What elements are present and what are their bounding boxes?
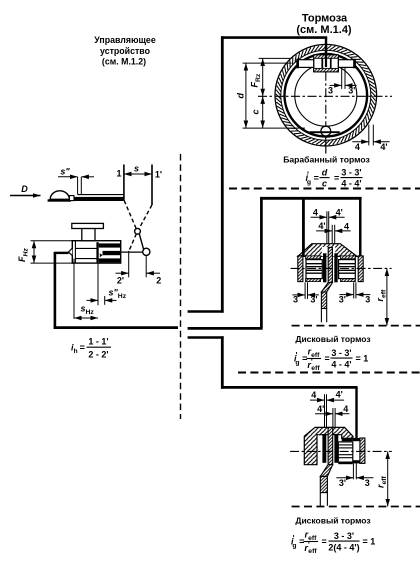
brake shoes circle [285, 54, 368, 137]
dimension F_Hz [17, 241, 34, 263]
svg-text:(см. М.1.2): (см. М.1.2) [102, 57, 146, 67]
s_Hz reference lines [74, 259, 105, 319]
pipe horizontal [221, 386, 358, 389]
left piston [306, 260, 322, 279]
vertical centre line [325, 72, 327, 154]
node 1 reference line [123, 165, 125, 201]
horizontal centre line [258, 95, 392, 97]
shoe inner circle [295, 64, 357, 126]
svg-text:(см. М.1.4): (см. М.1.4) [296, 24, 352, 36]
svg-text:3 - 3': 3 - 3' [341, 167, 361, 177]
dimension r_eff [375, 268, 388, 325]
frame top pipe [260, 197, 362, 200]
svg-text:3: 3 [365, 478, 370, 488]
pedal lever linkage (crossed) [124, 201, 152, 251]
svg-text:c: c [322, 178, 327, 188]
dimension d [236, 63, 246, 128]
svg-text:1: 1 [116, 169, 121, 179]
pedal [48, 191, 74, 202]
svg-text:4 - 4': 4 - 4' [341, 178, 361, 188]
svg-text:=: = [322, 537, 327, 547]
svg-text:3: 3 [293, 294, 298, 304]
boundary dashes top [229, 188, 420, 190]
pipe drop into wheel cylinder [325, 38, 327, 56]
svg-text:1': 1' [155, 170, 162, 180]
brake disc (upper strip) [328, 247, 332, 282]
svg-text:1 - 1': 1 - 1' [88, 337, 108, 347]
feed pipe to right cylinder [359, 198, 361, 256]
svg-text:4': 4' [336, 207, 343, 217]
extension lines left of drum [243, 58, 305, 128]
axle dashed line [292, 506, 420, 508]
wheel cylinder right push rod [338, 59, 356, 69]
left brake pad [322, 434, 326, 463]
svg-text:3 - 3': 3 - 3' [331, 348, 351, 358]
formula disc brake 1 [294, 347, 368, 372]
svg-text:Дисковый тормоз: Дисковый тормоз [295, 334, 370, 344]
svg-text:Дисковый тормоз: Дисковый тормоз [295, 516, 370, 526]
dimension s''_Hz [87, 288, 127, 301]
svg-text:3': 3' [339, 478, 346, 488]
force arrow D [10, 184, 41, 196]
centre line disc brake 1 [291, 267, 392, 269]
master cylinder U1 body [68, 241, 120, 263]
dimension r_eff [376, 451, 389, 506]
piston [338, 442, 353, 462]
left cylinder housing [298, 256, 321, 282]
pipe drop to caliper [355, 387, 357, 438]
push rod [121, 251, 143, 253]
dimension s (pedal travel) [124, 164, 152, 175]
dimension 3'/3 right pair [339, 282, 371, 304]
wheel cylinder left push rod [296, 59, 313, 69]
dimension c [251, 96, 263, 128]
disc jog [321, 283, 332, 293]
drum outer circle [275, 44, 377, 146]
svg-text:=: = [325, 354, 330, 364]
supply stub to drum brake [188, 310, 224, 313]
separator dashed line [180, 154, 182, 419]
node 1' reference line [151, 165, 153, 206]
svg-text:4': 4' [317, 404, 324, 414]
svg-text:4: 4 [343, 404, 348, 414]
trunk pipe vertical (left of drum) [221, 36, 224, 312]
svg-text:3': 3' [339, 294, 346, 304]
centre line disc brake 2 [290, 450, 392, 452]
dimension 3/3' left pair [292, 282, 319, 304]
extension line bottom [31, 262, 76, 264]
svg-text:s": s" [60, 167, 70, 177]
svg-text:4: 4 [355, 142, 360, 152]
supply stub to disc brake 2 [188, 336, 224, 339]
svg-text:d: d [236, 93, 246, 99]
dimension 2' / 2 [116, 251, 162, 286]
dimension 4 / 4' (anchor) [352, 125, 389, 152]
cylinder end cap [353, 438, 365, 463]
boundary dashes middle [238, 372, 420, 374]
svg-text:3': 3' [310, 294, 317, 304]
reservoir [72, 223, 104, 240]
caliper bridge [298, 244, 357, 257]
svg-text:устройство: устройство [100, 46, 151, 56]
piston of master cylinder [96, 242, 120, 262]
dimension s_Hz [74, 304, 98, 319]
pivot node 2 (pushrod joint) [143, 248, 150, 255]
svg-text:4: 4 [313, 207, 318, 217]
hydraulic line to separator [54, 326, 178, 329]
dimension F_Rz [250, 58, 263, 96]
right piston [339, 260, 356, 279]
supply pipe down [54, 252, 57, 329]
right cylinder housing [340, 256, 363, 282]
caliper fist and bridge [304, 427, 353, 464]
svg-text:s: s [134, 164, 139, 174]
formula disc brake 2 [291, 530, 375, 555]
svg-text:3: 3 [365, 294, 370, 304]
extension line top [31, 240, 73, 242]
feed pipe to left cylinder [302, 198, 305, 256]
caption brakes [296, 13, 352, 37]
svg-text:Тормоза: Тормоза [302, 13, 348, 25]
svg-text:4: 4 [311, 390, 316, 400]
left brake pad [323, 253, 326, 282]
feed pipe overdraw left [302, 198, 305, 256]
wheel cylinder [314, 43, 339, 72]
svg-text:3: 3 [328, 85, 333, 95]
svg-text:4': 4' [336, 390, 343, 400]
svg-text:D: D [21, 184, 28, 194]
disc jog [320, 465, 332, 477]
svg-text:2(4 - 4'): 2(4 - 4') [328, 542, 359, 552]
svg-text:4': 4' [380, 142, 387, 152]
axle dashed line [292, 325, 420, 327]
drum rim hatched ring [276, 45, 376, 145]
dimension 4'/4 lower [315, 404, 349, 428]
formula drum brake [306, 167, 363, 188]
svg-text:= 1: = 1 [356, 354, 369, 364]
svg-text:2': 2' [117, 276, 124, 286]
outlet elbow [54, 252, 69, 254]
brake disc (upper strip) [328, 427, 333, 465]
svg-text:Управляющее: Управляющее [94, 35, 156, 45]
caption control device [94, 35, 156, 67]
svg-text:3': 3' [348, 85, 355, 95]
right brake pad [334, 253, 337, 282]
disc lower strip [321, 292, 326, 322]
pipe vertical from junction [221, 336, 224, 388]
formula i_h [71, 337, 111, 360]
right brake pad [334, 434, 338, 463]
svg-text:c: c [251, 109, 261, 114]
svg-text:4: 4 [344, 221, 349, 231]
pipe top horizontal [221, 36, 327, 39]
svg-text:2 - 2': 2 - 2' [88, 350, 108, 360]
svg-text:3 - 3': 3 - 3' [334, 531, 354, 541]
dimension s'' (pedal free play) [58, 167, 94, 195]
dimension 4/4' upper [310, 390, 344, 428]
dimension 4'/4 lower [316, 221, 351, 247]
dimension 4/4' upper [311, 207, 345, 247]
svg-text:Барабанный тормоз: Барабанный тормоз [283, 155, 370, 165]
cylinder housing bands [338, 438, 353, 464]
pedal rod / lever arm [74, 195, 124, 201]
supply stub to disc brake 1 [188, 327, 263, 330]
anchor pin [310, 126, 340, 136]
disc lower strip [320, 476, 327, 505]
svg-text:2: 2 [156, 276, 161, 286]
svg-text:4': 4' [318, 221, 325, 231]
svg-text:d: d [322, 167, 328, 177]
svg-text:4 - 4': 4 - 4' [331, 359, 351, 369]
dimension 3 / 3' (wheel cylinder) [328, 68, 357, 96]
rim inner circle [281, 50, 371, 140]
dimension 3'/3 [336, 463, 373, 488]
pivot node (crossing) [135, 228, 141, 234]
svg-text:= 1: = 1 [363, 537, 376, 547]
svg-text:=: = [334, 173, 339, 183]
feed pipe overdraw right [359, 198, 361, 256]
frame left vertical pipe [260, 199, 263, 328]
